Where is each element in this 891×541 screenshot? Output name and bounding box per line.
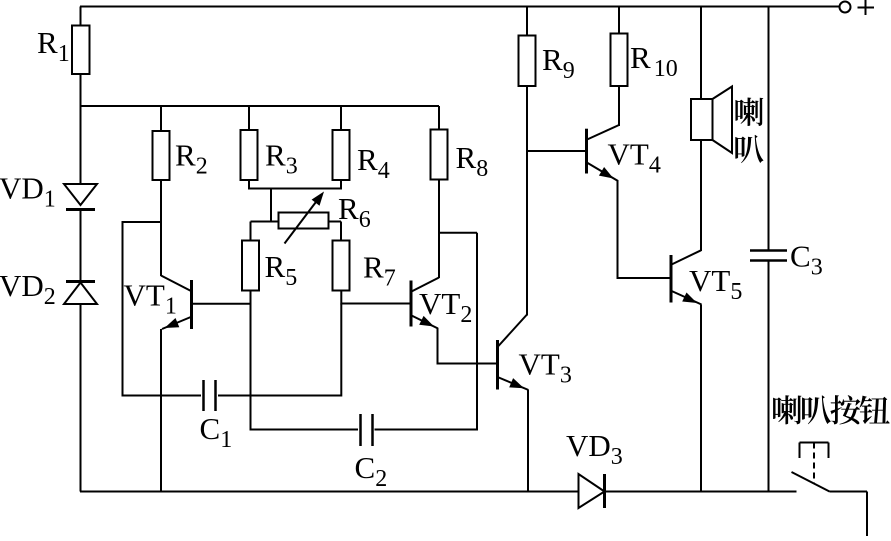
- wire second rail: [80, 105, 439, 107]
- transistor VT5: [670, 255, 673, 303]
- wire bottom rail left: [80, 491, 580, 493]
- wire R5 to VT1 base node: [250, 291, 252, 305]
- wire VT1 emitter down: [160, 329, 162, 492]
- wire VT5 emitter down: [700, 305, 702, 492]
- pushbutton switch: [800, 442, 829, 444]
- resistor R3: [248, 106, 250, 130]
- wire VT2 emitter to VT3 base: [437, 328, 439, 365]
- wire VT1 base: [192, 303, 252, 305]
- capacitor C1: [123, 395, 202, 397]
- wire below R3 R4: [248, 180, 250, 190]
- diode VD2: [66, 280, 95, 283]
- wire VT2 base: [341, 303, 410, 305]
- resistor R1: [80, 7, 82, 26]
- resistor R7: [340, 222, 342, 241]
- wire VT3 collector to R9: [526, 86, 528, 316]
- wire R2 to VT1 collector: [160, 180, 162, 276]
- diode VD1: [64, 184, 97, 205]
- transistor VT1: [190, 280, 193, 329]
- transistor VT3: [496, 340, 499, 390]
- potentiometer R6: [251, 221, 279, 223]
- wire bottom rail right: [604, 491, 797, 493]
- resistor R8: [438, 106, 440, 130]
- diode VD3: [579, 474, 605, 508]
- wire VT3 emitter down: [527, 390, 529, 492]
- wire left column upper: [80, 106, 82, 184]
- wire C2 right up to R8 node: [476, 233, 478, 431]
- wire R7 to VT2 base node: [340, 291, 342, 305]
- wire VT1 collector to C1 branch: [123, 221, 162, 223]
- wire top positive rail: [80, 6, 839, 8]
- capacitor C3: [768, 7, 770, 251]
- resistor R2: [160, 106, 162, 131]
- wire tap to R6: [270, 189, 272, 223]
- wire node to C2 left: [250, 304, 252, 431]
- capacitor C2: [251, 429, 359, 431]
- label speaker 喇叭: [735, 98, 763, 126]
- speaker: [700, 7, 702, 100]
- wire R8 to VT2 collector: [438, 180, 440, 279]
- transistor VT2: [410, 281, 413, 327]
- wire speaker to VT5 collector: [700, 140, 702, 251]
- label 喇叭按钮: [773, 395, 801, 424]
- resistor R9: [526, 7, 528, 36]
- wire R10 to VT4 collector: [618, 86, 620, 126]
- wire between VD1 and VD2: [80, 210, 82, 282]
- wire VT4 emitter to VT5 base: [617, 180, 619, 279]
- terminal + (battery positive): [840, 2, 851, 13]
- resistor R4: [340, 106, 342, 130]
- arrow of R6: [285, 197, 321, 244]
- resistor R5: [250, 222, 252, 241]
- transistor VT4: [585, 129, 588, 174]
- wire left column lower: [80, 304, 82, 492]
- wire node to C1 right: [340, 304, 342, 397]
- resistor R10: [618, 7, 620, 34]
- wire switch to bottom right: [830, 491, 868, 493]
- wire VT4 base: [527, 150, 586, 152]
